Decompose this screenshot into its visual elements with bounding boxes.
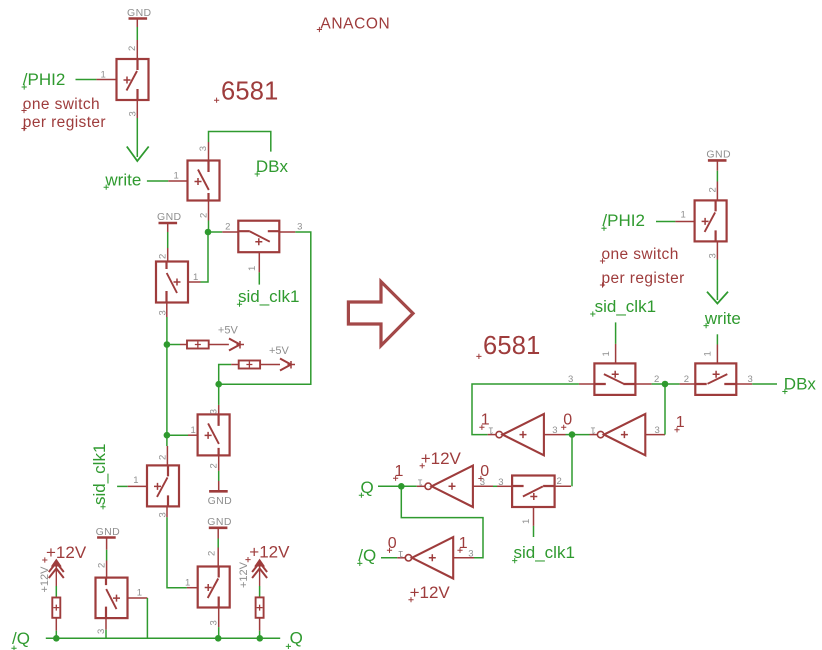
pin 2 stub S1 <box>136 40 138 59</box>
svg-text:/PHI2: /PHI2 <box>602 211 645 230</box>
svg-text:2: 2 <box>158 455 169 460</box>
pin 2 stub S2 <box>208 201 210 221</box>
node C junction <box>164 432 171 439</box>
pin 2 stub S7 <box>217 548 219 567</box>
svg-text:1: 1 <box>101 70 106 81</box>
wire /Q to V4 input <box>381 557 397 559</box>
wire S4 pin3 right and down to node D <box>219 232 311 384</box>
wire bottom bus /Q <box>46 637 280 639</box>
svg-text:3: 3 <box>480 477 485 488</box>
wire S8 pin1 down to bus <box>146 598 148 638</box>
supply +5V arrow 1 <box>229 339 244 351</box>
pin stub V1 input <box>488 434 496 436</box>
pin 3 stub S12 left <box>497 485 512 487</box>
pin 3 stub S2 <box>208 142 210 161</box>
svg-text:write: write <box>704 309 741 328</box>
switch S11 (write pass right) <box>695 363 736 395</box>
pin 3 stub S4 <box>279 231 295 233</box>
svg-text:+12V: +12V <box>39 566 51 593</box>
svg-text:1: 1 <box>137 588 142 599</box>
svg-text:6581: 6581 <box>483 332 541 360</box>
svg-text:1: 1 <box>398 548 403 559</box>
svg-text:3: 3 <box>748 374 753 385</box>
svg-text:3: 3 <box>707 253 718 258</box>
wire S6 pin3 to S8 pin1 <box>167 517 187 587</box>
node H junction <box>662 381 669 388</box>
pin 2 stub S3 <box>167 248 169 262</box>
supply +12V arrow right <box>252 560 267 587</box>
wire S2 pin2 to node A <box>208 221 210 233</box>
wire write to S2 pin1 <box>147 180 168 182</box>
wire sid_clk1 to S6 pin1 <box>117 485 128 487</box>
pin 2 stub S9 <box>716 182 718 201</box>
resistor R4 <box>256 597 264 617</box>
pin stub R1 right <box>209 344 229 346</box>
svg-text:2: 2 <box>198 213 209 218</box>
ground GND2 <box>157 211 182 223</box>
ground GND1 top-left <box>127 7 152 19</box>
wire S8 pin3 to bus <box>105 630 107 639</box>
node I junction <box>569 431 576 438</box>
switch S3 <box>156 262 188 303</box>
pin 2 stub S4 <box>222 231 238 233</box>
pin 3 stub V3 output <box>473 485 493 487</box>
wire node B to R1 <box>167 344 180 346</box>
wire R4 to bus <box>259 618 261 631</box>
pin 1 stub S10 <box>615 344 617 364</box>
svg-text:3: 3 <box>198 146 209 151</box>
supply +5V arrow 2 <box>280 359 295 371</box>
switch S2 (write switch) <box>188 161 220 201</box>
svg-text:3: 3 <box>208 409 219 414</box>
signal arrow down right <box>707 292 728 304</box>
svg-text:6581: 6581 <box>221 78 279 106</box>
pin 1 stub S5 <box>188 434 198 436</box>
svg-text:2: 2 <box>684 374 689 385</box>
svg-text:GND: GND <box>207 516 232 528</box>
svg-text:+5V: +5V <box>269 345 290 357</box>
svg-text:sid_clk1: sid_clk1 <box>595 297 656 316</box>
wire GND4 to S7 pin2 <box>217 528 219 539</box>
pin 3 stub S8 bottom <box>105 618 107 630</box>
wire +12V to R4 <box>259 586 261 597</box>
wire node C to S5 pin1 <box>167 434 188 436</box>
svg-text:1: 1 <box>133 475 138 486</box>
wire V3 to S12 pin3 <box>493 485 497 487</box>
svg-text:GND: GND <box>127 7 152 19</box>
node G junction <box>257 635 264 642</box>
svg-text:1: 1 <box>488 425 493 436</box>
node E junction <box>53 635 60 642</box>
node A junction <box>205 229 212 236</box>
node B junction (+5V tap) <box>164 341 171 348</box>
svg-text:write: write <box>104 170 141 189</box>
pin 1 stub S9 <box>675 221 694 223</box>
resistor R2 <box>239 361 260 369</box>
pin stub V3 input <box>417 485 425 487</box>
svg-text:1: 1 <box>174 171 179 182</box>
wire sid_clk1 to S10 pin1 <box>615 322 617 344</box>
svg-text:3: 3 <box>655 425 660 436</box>
svg-text:1: 1 <box>681 210 686 221</box>
wire node J down to V4 output <box>401 486 483 558</box>
wire node I down to S12 pin2 <box>571 435 573 487</box>
pin 1 stub S3 <box>188 281 201 283</box>
pin 3 stub S1 <box>136 100 138 118</box>
svg-text:sid_clk1: sid_clk1 <box>238 287 299 306</box>
resistor R1 <box>187 341 209 349</box>
wire +12V to R3 <box>55 586 57 598</box>
wire node D up to R2 <box>219 365 232 385</box>
svg-text:2: 2 <box>225 222 230 233</box>
pin 3 stub V1 output <box>544 434 566 436</box>
wire write to S11 pin1 <box>716 334 718 344</box>
ground GND3 (flipped) <box>208 491 233 507</box>
pin 3 stub V4 output <box>453 557 474 559</box>
switch S9 (/PHI2 right) <box>695 200 727 241</box>
pin 1 stub S4 bottom <box>258 252 260 272</box>
svg-text:GND: GND <box>208 495 233 507</box>
svg-text:/Q: /Q <box>12 629 30 648</box>
wire V2 output up to node H <box>664 384 666 435</box>
inverter V2 <box>597 414 645 455</box>
pin 3 stub S10 left <box>579 383 595 385</box>
wire S10 pin3 to inverter V1 input <box>472 384 579 435</box>
pin 2 stub S12 right <box>555 485 571 487</box>
svg-text:3: 3 <box>209 620 220 625</box>
svg-text:1: 1 <box>191 425 196 436</box>
ground GND5 bottom-left <box>96 526 121 538</box>
wire GND5 to S8 pin2 <box>106 538 108 550</box>
pin 1 stub S8 <box>128 597 148 599</box>
pin 3 stub S9 bottom <box>716 241 718 259</box>
svg-text:+12V: +12V <box>46 543 87 562</box>
ground GND6 top-right <box>706 149 731 161</box>
pin 1 stub S6 <box>128 485 147 487</box>
svg-text:0: 0 <box>563 412 572 429</box>
pin 3 stub S6 bottom <box>166 506 168 517</box>
pin 3 stub V2 output <box>646 434 666 436</box>
svg-text:1: 1 <box>702 351 713 356</box>
svg-text:+5V: +5V <box>218 325 239 337</box>
pin 3 stub S5 top <box>218 405 220 415</box>
pin stub R1 left <box>180 344 187 346</box>
pin 2 stub S10 right <box>636 383 652 385</box>
pin 1 stub S2 <box>168 180 187 182</box>
svg-text:per register: per register <box>602 270 685 287</box>
wire node A to S3 pin1 <box>201 232 209 282</box>
svg-text:GND: GND <box>706 149 731 161</box>
svg-text:+12V: +12V <box>410 583 451 602</box>
switch S12 (sid_clk1 pass row3) <box>512 476 555 508</box>
svg-text:/PHI2: /PHI2 <box>23 70 66 89</box>
svg-text:3: 3 <box>468 549 473 560</box>
switch S1 (/PHI2 register switch) <box>117 59 149 100</box>
wire R3 to bus <box>55 618 57 631</box>
svg-text:2: 2 <box>207 551 218 556</box>
svg-text:+12V: +12V <box>421 449 462 468</box>
svg-text:2: 2 <box>707 187 718 192</box>
pin 3 stub S11 right <box>736 383 752 385</box>
wire node A to S4 pin2 <box>208 231 222 233</box>
svg-text:DBx: DBx <box>784 375 817 394</box>
pin 1 stub S12 bottom <box>533 506 535 526</box>
wire S12 pin1 label stub <box>533 526 535 537</box>
pin 1 stub S11 <box>716 345 718 364</box>
pin 3 stub S7 bottom <box>218 608 220 628</box>
wire GND2 to S3 pin2 <box>167 223 169 232</box>
wire S7 pin3 to bus <box>218 627 220 638</box>
svg-text:3: 3 <box>297 222 302 233</box>
pin 2 stub S6 top <box>166 446 168 465</box>
svg-text:GND: GND <box>96 526 121 538</box>
switch S7 <box>198 567 230 608</box>
svg-text:+12V: +12V <box>238 561 250 588</box>
wire S3 pin3 down to S7 pin2 <box>166 317 168 446</box>
wire S5 pin3 to node D <box>218 384 220 405</box>
inverter V1 <box>496 414 544 455</box>
svg-text:1: 1 <box>418 476 423 487</box>
wire /PHI2 to S9 pin1 <box>656 221 675 223</box>
pin 2 stub S8 <box>106 561 108 578</box>
pin 1 stub S7 <box>187 587 198 589</box>
node J junction <box>398 483 405 490</box>
node F junction <box>215 635 222 642</box>
svg-text:one switch: one switch <box>602 246 679 263</box>
wire GND6 to S9 pin2 <box>716 160 718 170</box>
svg-text:2: 2 <box>97 563 108 568</box>
svg-text:sid_clk1: sid_clk1 <box>514 543 575 562</box>
pin stub R2 right <box>260 364 280 366</box>
wire S2 pin3 to DBx <box>209 132 271 152</box>
svg-text:one switch: one switch <box>23 96 100 113</box>
svg-text:1: 1 <box>591 425 596 436</box>
svg-text:Q: Q <box>290 629 303 648</box>
switch S10 (sid_clk1 pass right) <box>594 363 635 395</box>
svg-text:Q: Q <box>361 478 374 497</box>
wire S10 pin2 to S11 pin2 via node H <box>652 383 680 385</box>
svg-text:1: 1 <box>521 519 532 524</box>
svg-text:2: 2 <box>557 476 562 487</box>
supply +12V arrow left <box>49 560 64 587</box>
svg-text:2: 2 <box>158 254 169 259</box>
wire S5 pin2 to GND3 <box>218 471 220 481</box>
svg-text:3: 3 <box>157 512 168 517</box>
pin 1 stub S1 <box>96 79 116 81</box>
svg-text:sid_clk1: sid_clk1 <box>90 444 109 505</box>
svg-text:/Q: /Q <box>358 546 376 565</box>
inverter V3 <box>425 466 473 507</box>
switch S6 <box>147 465 179 506</box>
pin 2 stub S11 left <box>680 383 696 385</box>
wire S11 pin3 to DBx <box>752 383 777 385</box>
wire /PHI2 to S1 pin1 <box>76 79 97 81</box>
ground GND4 <box>207 516 232 528</box>
svg-text:1: 1 <box>193 272 198 283</box>
svg-text:2: 2 <box>127 46 138 51</box>
svg-text:3: 3 <box>498 477 503 488</box>
svg-text:3: 3 <box>552 425 557 436</box>
pin 2 stub S5 bottom <box>218 455 220 471</box>
wire S4 pin1 label stub <box>258 272 260 284</box>
wire node I to V2 input <box>572 434 590 436</box>
pin 3 stub S3 bottom <box>166 303 168 318</box>
switch S8 <box>96 578 128 619</box>
inverter V4 <box>405 537 453 578</box>
svg-text:1: 1 <box>247 266 258 271</box>
svg-text:1: 1 <box>601 351 612 356</box>
pin stub V2 input <box>590 434 598 436</box>
svg-text:ANACON: ANACON <box>320 15 390 32</box>
node D junction <box>215 381 222 388</box>
svg-text:+12V: +12V <box>249 543 290 562</box>
wire GND1 to S1 pin2 <box>136 20 138 28</box>
svg-text:3: 3 <box>128 111 139 116</box>
wire S1 pin3 down <box>136 118 138 157</box>
wire Q to V3 input <box>378 485 417 487</box>
svg-text:GND: GND <box>157 211 182 223</box>
wire S9 pin3 down <box>716 260 718 301</box>
big transform arrow <box>348 282 413 346</box>
svg-text:DBx: DBx <box>256 157 289 176</box>
svg-text:2: 2 <box>208 463 219 468</box>
pin stub V4 input <box>397 557 405 559</box>
resistor R3 <box>52 598 60 618</box>
pin stub R2 left <box>231 364 239 366</box>
wire V1 output to node I <box>566 434 573 436</box>
switch S5 <box>198 414 230 455</box>
switch S4 (sid_clk1 pass switch) <box>238 221 279 253</box>
svg-text:3: 3 <box>157 310 168 315</box>
svg-text:per register: per register <box>23 114 106 131</box>
svg-text:1: 1 <box>185 578 190 589</box>
signal arrow down left <box>127 147 149 162</box>
